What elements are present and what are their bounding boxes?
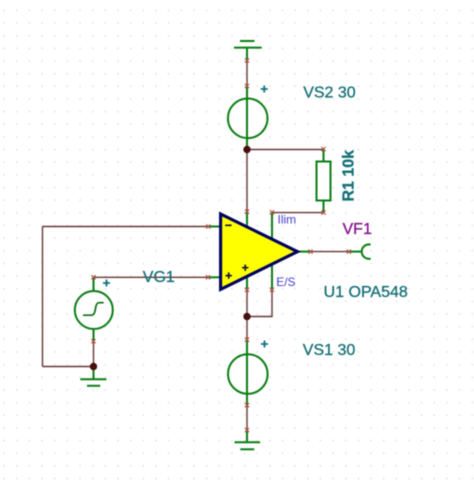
svg-text:VS1 30: VS1 30: [303, 342, 356, 359]
svg-text:R1 10k: R1 10k: [341, 150, 358, 202]
svg-text:U1 OPA548: U1 OPA548: [324, 284, 408, 301]
svg-text:VS2 30: VS2 30: [303, 84, 356, 101]
svg-text:E/S: E/S: [276, 275, 295, 289]
svg-text:VF1: VF1: [343, 221, 372, 238]
svg-text:VG1: VG1: [143, 269, 175, 286]
svg-text:Ilim: Ilim: [278, 213, 297, 227]
